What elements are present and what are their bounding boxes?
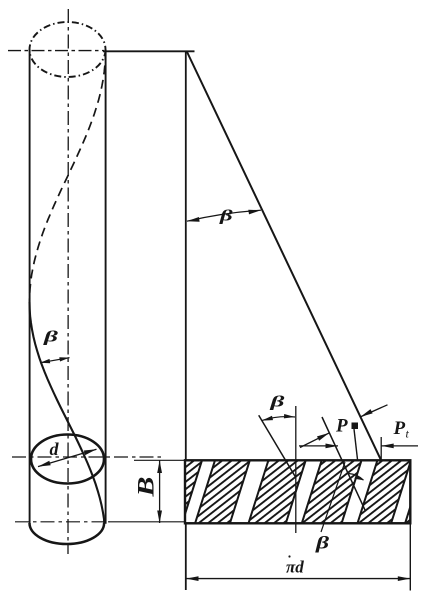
wire: cylinder right edge (105, 50, 107, 524)
wire: dashed hidden helix (30, 51, 106, 302)
svg-text:β: β (315, 532, 330, 552)
node: white flute band 5 (391, 460, 425, 523)
svg-text:P: P (393, 418, 406, 439)
node: cylinder vertical centerline (67, 9, 69, 554)
wire: vertical reference V1 (295, 406, 297, 533)
svg-text:P: P (335, 416, 348, 437)
svg-text:πd: πd (286, 558, 304, 577)
node: white flute band 4 (342, 460, 378, 523)
wire: beta1 angle arrow at helix (40, 358, 70, 363)
wire: cylinder left edge (29, 50, 31, 524)
svg-text:B: B (133, 477, 159, 498)
wire: vertical extension V2 at hypotenuse foot (380, 437, 382, 460)
node: cylinder bottom arc (30, 523, 105, 544)
wire: top horizontal dash-dot centerline (8, 50, 104, 52)
wire: hypotenuse (187, 51, 381, 460)
wire: flute line FL through strip (322, 417, 365, 510)
wire: beta3 angle arc (262, 417, 295, 421)
wire: pi-d dimension line (186, 578, 410, 580)
wire: B dimension line (159, 461, 161, 524)
wire: small angle arc in strip (349, 474, 364, 481)
wire: beta2 angle arc (187, 210, 261, 221)
node: white flute band 2 (230, 460, 269, 523)
node: white flute band 1 (182, 460, 215, 523)
wire: flute line F1 above strip (259, 415, 296, 477)
wire: Pn leader tick to strip top (354, 429, 358, 460)
svg-text:β: β (269, 392, 285, 410)
wire: Pt dimension line left part (299, 445, 338, 447)
wire: Pn dimension upper tail (360, 405, 387, 417)
node: white flute band 3 (286, 460, 322, 523)
wire: mid dash-dot centerline at ellipse center (12, 456, 162, 458)
wire: solid visible helix (30, 302, 105, 523)
node: top ellipse (dash-dot) (30, 22, 106, 77)
node: lower ellipse (31, 435, 104, 484)
wire: beta4 leader line through strip (321, 462, 345, 532)
wire: B top extension line (134, 459, 186, 461)
wire: bottom dash-dot centerline (15, 521, 110, 523)
wire: right extension below strip (409, 524, 411, 591)
svg-text:d: d (50, 439, 60, 459)
node: pi dot artifact (288, 555, 290, 557)
svg-text:β: β (219, 208, 233, 225)
wire: triangle vertical side / strip left extension (185, 51, 187, 590)
svg-text:β: β (43, 327, 59, 345)
wire: d dimension line (38, 449, 97, 466)
wire: Pt dimension line right part (381, 445, 418, 447)
node: strip border (185, 460, 410, 523)
wire: Pn dimension lower tail (300, 433, 329, 448)
node: Pn subscript square (352, 423, 359, 430)
wire: B bottom extension line (108, 521, 186, 523)
wire: top horizontal solid line to triangle corner (103, 50, 195, 52)
node: hatched strip fill (182, 460, 425, 523)
